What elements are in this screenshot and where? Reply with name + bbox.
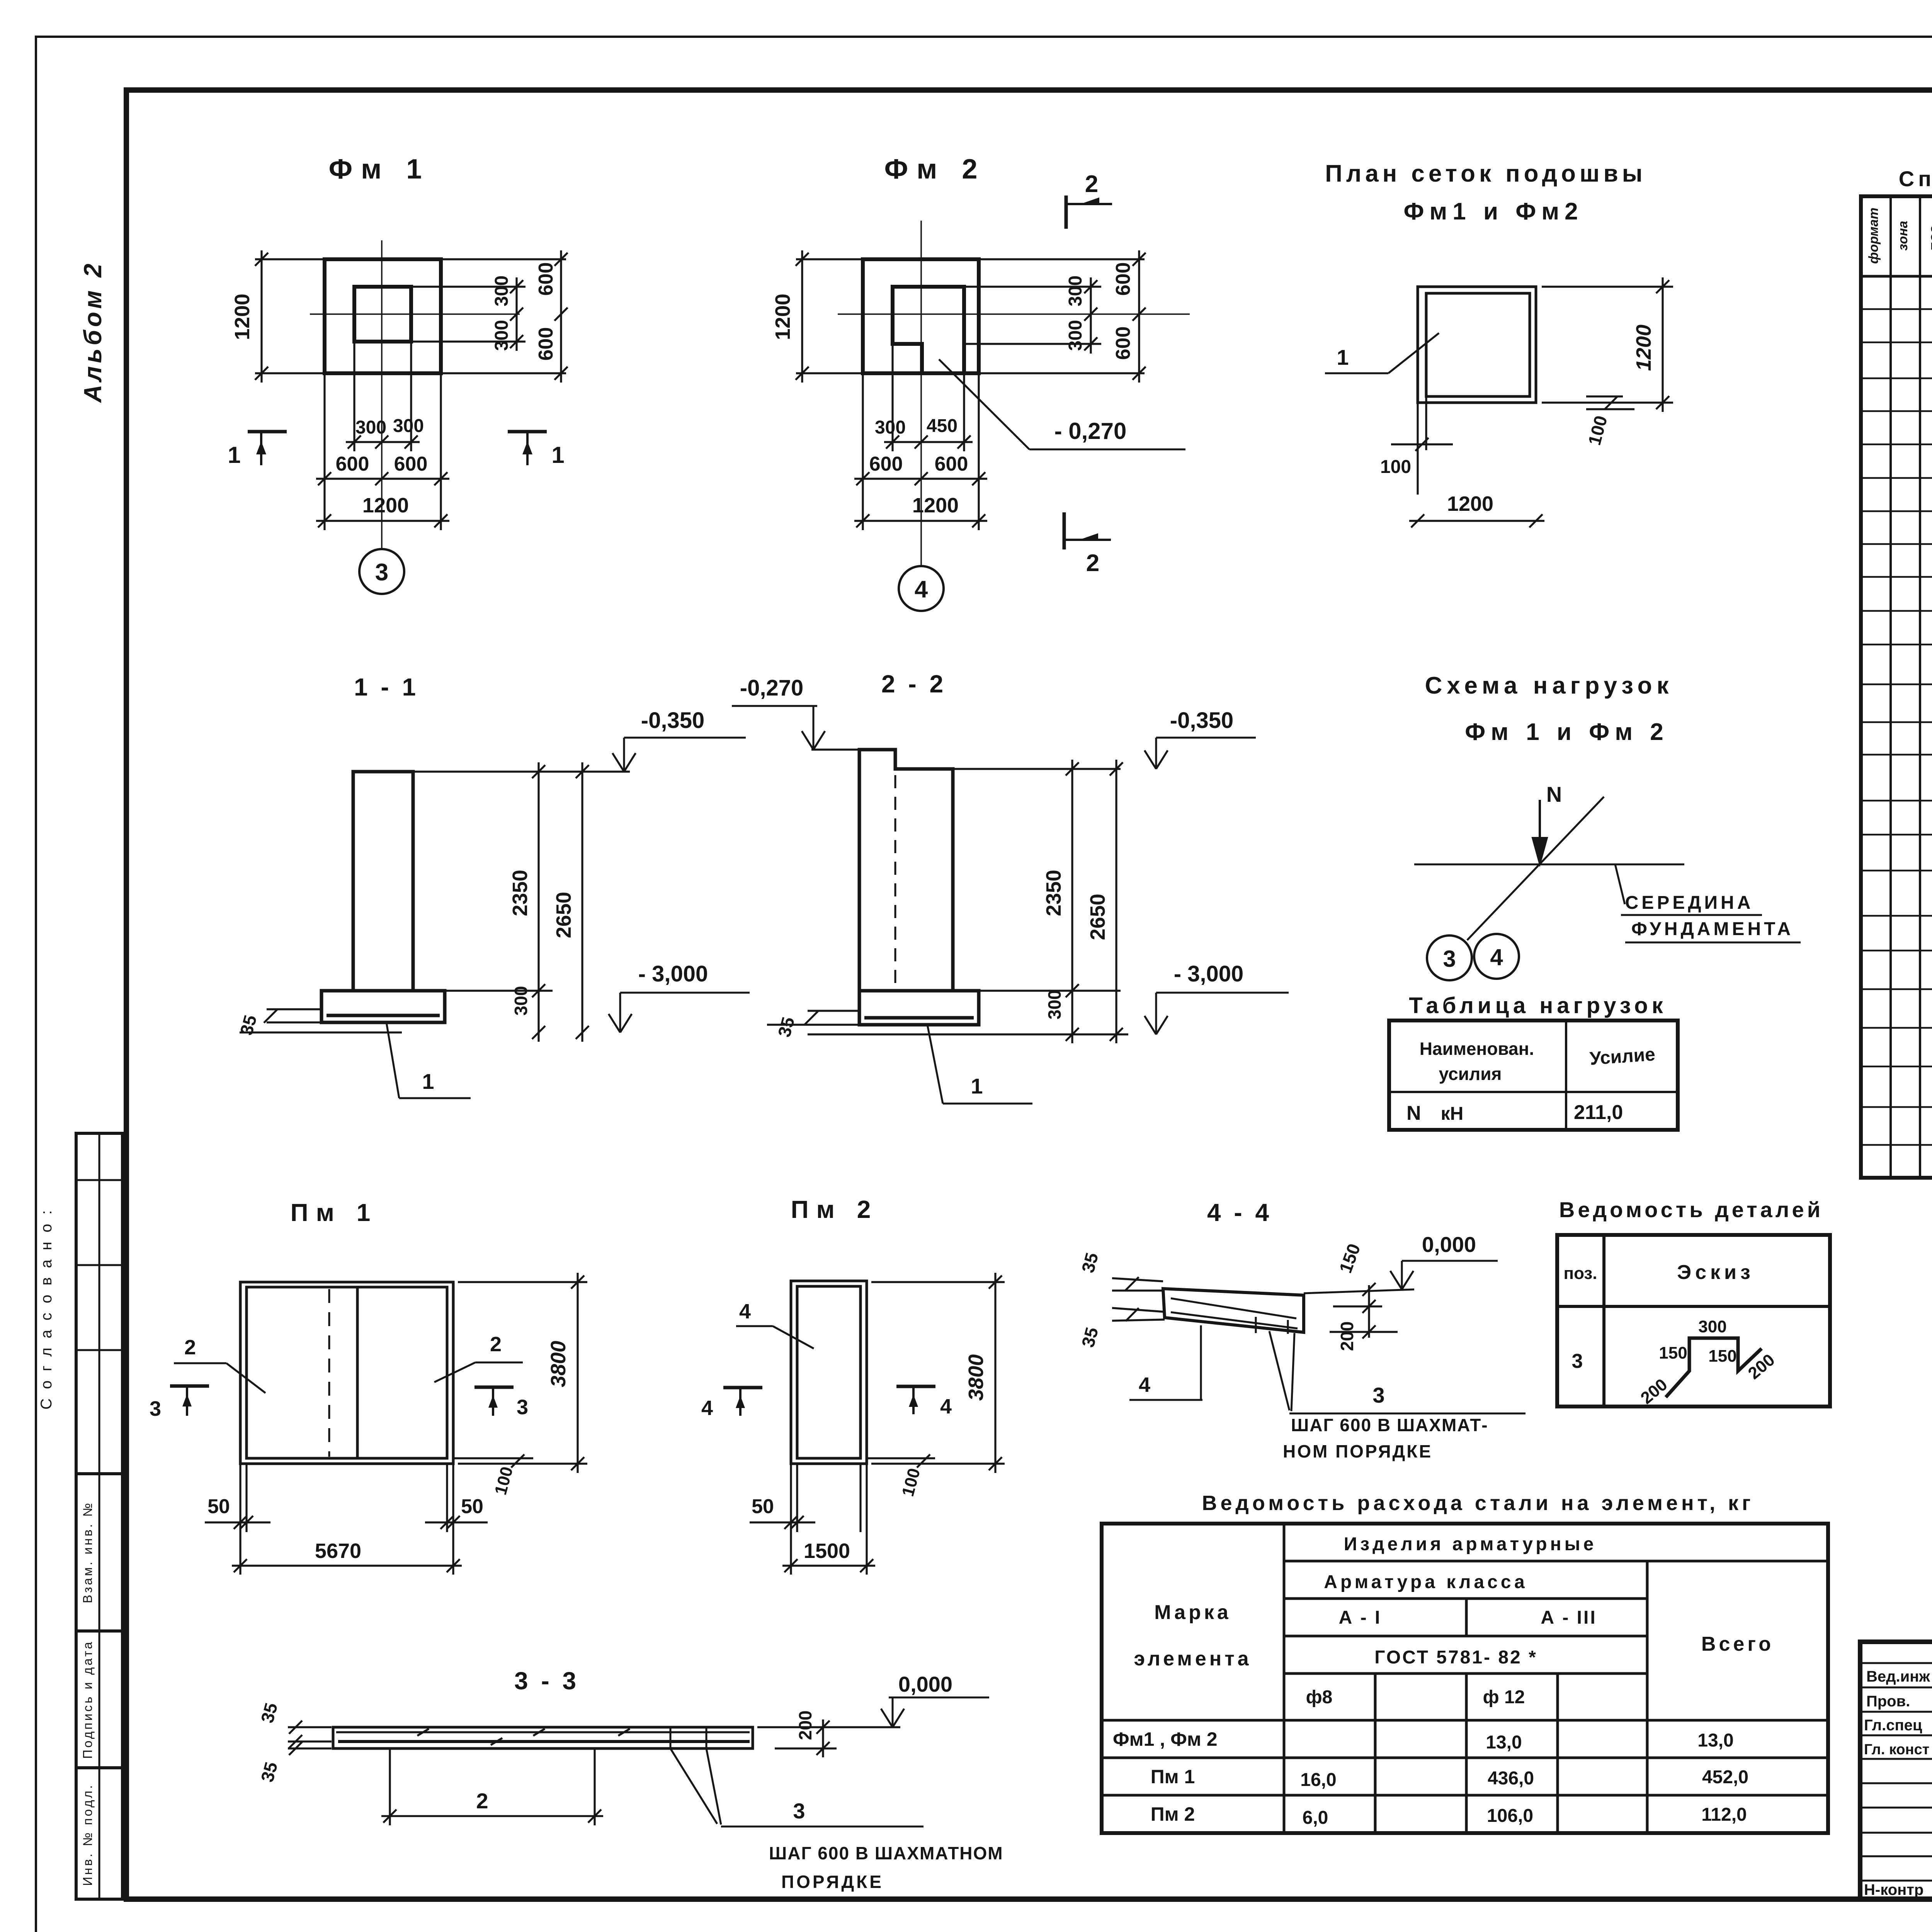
svg-text:600: 600: [394, 453, 428, 475]
svg-text:1500: 1500: [804, 1539, 850, 1563]
svg-text:Всего: Всего: [1701, 1633, 1774, 1655]
svg-text:1200: 1200: [1632, 325, 1655, 371]
svg-text:300: 300: [1065, 276, 1086, 306]
svg-text:3: 3: [1572, 1350, 1583, 1372]
svg-text:-0,350: -0,350: [641, 708, 704, 733]
svg-text:300: 300: [1065, 320, 1086, 351]
svg-text:2650: 2650: [1086, 894, 1109, 940]
svg-text:13,0: 13,0: [1486, 1732, 1522, 1753]
svg-text:3: 3: [375, 559, 388, 586]
3-3 mesh joints: [670, 1727, 672, 1748]
title block signature rows: [1860, 1662, 1932, 1664]
4-4 top reference line extension: [1304, 1289, 1414, 1293]
svg-text:300: 300: [355, 417, 386, 438]
svg-text:1 - 1: 1 - 1: [354, 673, 419, 701]
svg-text:Арматура класса: Арматура класса: [1324, 1572, 1528, 1592]
svg-text:5670: 5670: [315, 1539, 361, 1563]
2-2 dim 2650: [1115, 760, 1117, 1043]
svg-text:1: 1: [422, 1069, 434, 1094]
3-3 slab inner top line: [336, 1731, 750, 1733]
svg-text:Подпись и дата: Подпись и дата: [80, 1640, 95, 1759]
svg-text:150: 150: [1708, 1347, 1736, 1366]
4-4 left dims 35/35: [1112, 1278, 1163, 1281]
box Инв. № подл.: [76, 1768, 122, 1899]
Фм2 bottom dim 600/600: [854, 478, 987, 480]
4-4 slab mesh lines: [1171, 1298, 1296, 1318]
svg-text:Пм 1: Пм 1: [1151, 1766, 1195, 1787]
svg-text:3: 3: [150, 1397, 161, 1420]
Фм1 inner square (column): [354, 287, 411, 342]
svg-text:зона: зона: [1896, 221, 1910, 250]
svg-text:2350: 2350: [509, 870, 532, 916]
load table header divider: [1389, 1091, 1678, 1093]
svg-text:Схема нагрузок: Схема нагрузок: [1425, 672, 1673, 699]
svg-text:2: 2: [490, 1333, 502, 1356]
svg-text:4 - 4: 4 - 4: [1207, 1199, 1272, 1226]
svg-text:13,0: 13,0: [1697, 1730, 1733, 1751]
details table header divider: [1557, 1305, 1830, 1308]
Пм1 dim 50 left: [205, 1521, 270, 1523]
svg-text:3: 3: [1372, 1383, 1384, 1407]
section mark 2 below Фм2: [1063, 512, 1066, 549]
svg-text:1200: 1200: [231, 294, 254, 340]
section mark 3 left of Пм1: [170, 1384, 209, 1388]
Фм2 horizontal centerline: [838, 313, 1190, 315]
Фм1 outer square 1200x1200: [325, 259, 441, 373]
svg-text:3800: 3800: [964, 1354, 988, 1401]
Пм1 dim 50 right: [425, 1521, 488, 1523]
diagonal axis line: [1467, 797, 1604, 940]
details table frame: [1557, 1235, 1830, 1406]
1-1 footing outline: [321, 991, 445, 1022]
svg-text:Фм 1 и Фм 2: Фм 1 и Фм 2: [1465, 719, 1669, 745]
Фм2 left dim 1200: [796, 258, 863, 260]
svg-text:4: 4: [1139, 1373, 1150, 1396]
load table frame: [1389, 1020, 1678, 1130]
svg-text:600: 600: [935, 453, 968, 475]
leader СЕРЕДИНА ФУНДАМЕНТА: [1615, 864, 1625, 904]
svg-text:4: 4: [940, 1395, 952, 1418]
svg-text:1: 1: [1337, 345, 1349, 369]
svg-text:Инв. № подл.: Инв. № подл.: [80, 1783, 95, 1886]
3-3 leaders to item 3: [670, 1748, 717, 1824]
Пм1 outer rect: [240, 1282, 453, 1464]
2-2 footing outline: [859, 991, 979, 1025]
2-2 mesh bar in footing: [864, 1016, 974, 1020]
svg-text:Фм 1: Фм 1: [329, 154, 430, 185]
svg-text:Гл.спец: Гл.спец: [1864, 1717, 1922, 1734]
Фм2 bottom extension lines: [891, 344, 893, 451]
svg-text:Согласовано:: Согласовано:: [38, 1201, 55, 1410]
svg-text:Пров.: Пров.: [1866, 1693, 1910, 1710]
svg-text:1200: 1200: [1447, 492, 1493, 515]
steel table outer frame: [1102, 1524, 1828, 1833]
box Подпись и дата: [76, 1631, 122, 1768]
svg-text:2350: 2350: [1042, 870, 1065, 916]
mesh plan right dim 1200: [1542, 286, 1673, 287]
Фм1 bottom dim 600/600: [316, 478, 449, 480]
2-2 leader to mesh item 1: [927, 1025, 943, 1104]
svg-text:1: 1: [228, 442, 240, 468]
svg-text:200: 200: [795, 1711, 815, 1740]
svg-text:Пм 2: Пм 2: [791, 1196, 879, 1223]
4-4 slab tilted outline: [1163, 1289, 1304, 1332]
1-1 mesh bar in footing: [327, 1014, 440, 1017]
svg-text:300: 300: [492, 320, 512, 351]
svg-text:формат: формат: [1866, 207, 1881, 264]
Пм2 dim 1500: [782, 1565, 875, 1566]
svg-text:211,0: 211,0: [1574, 1101, 1623, 1124]
svg-text:1200: 1200: [771, 294, 794, 340]
svg-text:200: 200: [1337, 1321, 1357, 1351]
spec table row lines: [1861, 308, 1932, 310]
Пм1 dim 100 right: [453, 1457, 533, 1459]
svg-text:Пм 1: Пм 1: [291, 1199, 378, 1226]
svg-text:0,000: 0,000: [898, 1672, 952, 1696]
section mark 2 above Фм2: [1065, 196, 1068, 229]
svg-text:3: 3: [517, 1396, 528, 1419]
Пм2 bottom extension lines: [790, 1464, 792, 1575]
svg-text:6,0: 6,0: [1303, 1808, 1328, 1828]
Фм1 bottom dim 1200: [316, 520, 449, 522]
svg-text:Наименован.: Наименован.: [1420, 1039, 1534, 1059]
2-2 dashed centerline in column: [895, 753, 896, 989]
svg-text:600: 600: [1112, 262, 1134, 296]
svg-text:300: 300: [1044, 990, 1065, 1020]
svg-text:- 3,000: - 3,000: [1174, 961, 1244, 986]
Фм1 left dim 1200: [255, 258, 325, 260]
svg-text:150: 150: [1659, 1344, 1687, 1362]
svg-text:Вед.инж: Вед.инж: [1866, 1668, 1930, 1685]
Фм1 horizontal centerline: [310, 313, 520, 315]
svg-text:300: 300: [875, 417, 906, 438]
4-4 leaders to item 3: [1269, 1331, 1289, 1410]
svg-text:1: 1: [971, 1074, 983, 1098]
mesh plan bottom dim 1200: [1409, 520, 1544, 522]
svg-text:4: 4: [915, 576, 928, 603]
svg-text:2: 2: [1086, 550, 1099, 577]
svg-text:ПОРЯДКЕ: ПОРЯДКЕ: [781, 1872, 884, 1892]
svg-text:Ведомость расхода стали на эле: Ведомость расхода стали на элемент, кг: [1202, 1492, 1754, 1515]
Фм1 right dim chain 300/300: [515, 277, 517, 351]
Пм2 dim 100 right: [867, 1457, 935, 1459]
1-1 dim 2650: [581, 762, 583, 1042]
3-3 left dims 35/35: [288, 1726, 332, 1728]
Фм2 stepped inner column outline: [893, 287, 964, 373]
section mark 3 right of Пм1: [474, 1386, 514, 1389]
svg-text:3 - 3: 3 - 3: [514, 1667, 579, 1695]
1-1 left dim 35: [267, 1021, 321, 1023]
svg-text:ГОСТ 5781- 82 *: ГОСТ 5781- 82 *: [1374, 1647, 1537, 1668]
mesh plan right dim 100: [1586, 395, 1623, 397]
svg-text:600: 600: [1112, 327, 1134, 360]
svg-text:3800: 3800: [547, 1341, 570, 1387]
Пм1 dashed mesh boundary: [328, 1289, 330, 1457]
foundation line: [1414, 864, 1684, 866]
svg-text:А - III: А - III: [1541, 1607, 1597, 1628]
Пм1 solid mesh boundary: [356, 1287, 359, 1458]
svg-text:Спецификация на элемент констр: Спецификация на элемент конструкции: [1899, 167, 1932, 191]
svg-text:СЕРЕДИНА: СЕРЕДИНА: [1625, 893, 1754, 913]
Пм2 inner rect: [797, 1286, 861, 1458]
svg-text:50: 50: [207, 1495, 230, 1518]
Фм1 right dim chain 600/600: [560, 250, 562, 383]
svg-text:усилия: усилия: [1439, 1064, 1502, 1084]
steel table verticals: [1283, 1524, 1286, 1833]
svg-text:300: 300: [1698, 1317, 1726, 1336]
detail 3 bent bar sketch: [1666, 1338, 1762, 1397]
svg-text:Марка: Марка: [1154, 1601, 1231, 1624]
Фм2 bottom dim 1200: [854, 520, 987, 522]
svg-text:600: 600: [336, 453, 369, 475]
svg-text:N: N: [1406, 1102, 1421, 1124]
mesh plan leader 1: [1388, 333, 1439, 373]
spec table outer frame: [1861, 196, 1932, 1178]
svg-text:4: 4: [739, 1300, 751, 1323]
2-2 dim chain 2350/300: [953, 768, 1121, 770]
details table column divider: [1602, 1235, 1605, 1406]
svg-text:Пм 2: Пм 2: [1151, 1803, 1195, 1825]
svg-text:452,0: 452,0: [1702, 1767, 1748, 1787]
axis bubble 4 on schema: [1474, 934, 1519, 979]
svg-text:1200: 1200: [362, 494, 409, 517]
axis bubble 4 under Фм2: [899, 566, 944, 611]
svg-text:-0,270: -0,270: [740, 675, 803, 701]
Пм2 right dim 3800: [871, 1281, 1005, 1283]
svg-text:3: 3: [1443, 946, 1456, 972]
Фм2 vertical centerline: [920, 221, 922, 565]
Фм1 right extension lines: [441, 258, 566, 260]
Пм2 dim 50 left: [750, 1521, 815, 1523]
svg-text:2: 2: [476, 1789, 488, 1813]
Пм1 right dim 3800: [458, 1281, 587, 1283]
1-1 leader to mesh item 1: [386, 1022, 399, 1098]
spec table header bottom: [1861, 275, 1932, 278]
svg-text:3: 3: [793, 1799, 805, 1823]
svg-text:2: 2: [184, 1336, 196, 1359]
3-3 slab outline: [333, 1727, 753, 1748]
svg-text:16,0: 16,0: [1300, 1770, 1336, 1790]
svg-text:600: 600: [535, 327, 557, 361]
svg-text:Изделия арматурные: Изделия арматурные: [1344, 1534, 1597, 1554]
Фм1 vertical centerline: [381, 240, 383, 548]
svg-text:кН: кН: [1441, 1104, 1464, 1124]
section mark 4 right of Пм2: [896, 1385, 935, 1388]
svg-text:Н-контр: Н-контр: [1864, 1881, 1923, 1898]
2-2 left dim 35: [767, 1024, 858, 1026]
svg-text:600: 600: [535, 262, 557, 296]
svg-text:2: 2: [1085, 171, 1098, 197]
Согласовано grid box: [76, 1133, 122, 1474]
axis bubble 3 under Фм1: [359, 549, 404, 594]
3-3 mesh bar in slab: [338, 1740, 750, 1743]
svg-text:А - I: А - I: [1339, 1607, 1382, 1628]
Фм2 right dim chain 600/600: [1138, 250, 1140, 383]
svg-text:300: 300: [492, 276, 512, 306]
svg-text:Эскиз: Эскиз: [1677, 1261, 1754, 1284]
svg-text:НОМ ПОРЯДКЕ: НОМ ПОРЯДКЕ: [1283, 1441, 1432, 1461]
svg-text:N: N: [1546, 782, 1562, 806]
svg-text:- 3,000: - 3,000: [638, 961, 708, 986]
svg-text:50: 50: [461, 1495, 483, 1518]
Фм2 right extension lines: [979, 258, 1145, 260]
load table column divider: [1565, 1020, 1567, 1130]
Фм2 right dim chain 300/300: [1090, 277, 1092, 354]
svg-text:Фм1 , Фм 2: Фм1 , Фм 2: [1113, 1728, 1218, 1750]
svg-text:ф 12: ф 12: [1483, 1687, 1525, 1708]
svg-text:ШАГ 600 В ШАХМАТНОМ: ШАГ 600 В ШАХМАТНОМ: [769, 1843, 1003, 1863]
svg-text:106,0: 106,0: [1487, 1806, 1533, 1826]
svg-text:2 - 2: 2 - 2: [881, 670, 946, 698]
svg-text:Ведомость деталей: Ведомость деталей: [1559, 1197, 1823, 1222]
svg-text:450: 450: [927, 416, 957, 436]
Фм2 outer square 1200x1200: [863, 259, 979, 373]
4-4 right dim 150: [1368, 1285, 1370, 1338]
svg-text:ФУНДАМЕНТА: ФУНДАМЕНТА: [1631, 919, 1794, 939]
svg-text:1200: 1200: [912, 494, 959, 517]
3-3 bottom dim 2: [389, 1748, 391, 1825]
svg-text:элемента: элемента: [1134, 1648, 1252, 1670]
svg-text:300: 300: [511, 986, 531, 1016]
2-2 column outline with step: [859, 750, 953, 991]
mesh plan inner square: [1426, 293, 1530, 396]
Фм2 bottom dim 300/450: [884, 441, 973, 443]
svg-text:Таблица нагрузок: Таблица нагрузок: [1409, 993, 1667, 1018]
Фм1 bottom dim 300/300: [346, 441, 420, 443]
Пм2 outer rect: [791, 1281, 867, 1464]
box Взам. инв. №: [76, 1474, 122, 1631]
Пм1 dim 5670: [232, 1565, 462, 1566]
Пм1 inner rect: [247, 1287, 447, 1458]
svg-text:2650: 2650: [552, 892, 575, 938]
mesh plan outer square: [1418, 287, 1536, 403]
svg-text:- 0,270: - 0,270: [1054, 418, 1127, 444]
svg-text:112,0: 112,0: [1701, 1804, 1747, 1825]
section mark 1-1 left of Фм1: [248, 430, 287, 434]
axis bubble 3 on schema: [1427, 935, 1472, 980]
svg-text:0,000: 0,000: [1422, 1232, 1476, 1257]
svg-text:поз.: поз.: [1926, 222, 1932, 251]
spec table verticals: [1889, 196, 1892, 1178]
3-3 right dim 200: [775, 1747, 837, 1749]
svg-text:4: 4: [701, 1396, 713, 1420]
svg-text:Гл. конст: Гл. конст: [1864, 1742, 1929, 1758]
svg-text:100: 100: [1380, 457, 1411, 477]
elevation leader -0,270 on Фм2: [939, 359, 1029, 449]
section mark 1-1 right of Фм1: [508, 430, 547, 434]
svg-text:436,0: 436,0: [1488, 1768, 1534, 1789]
svg-text:поз.: поз.: [1564, 1264, 1597, 1283]
svg-text:Альбом 2: Альбом 2: [79, 260, 107, 403]
svg-text:Фм1 и Фм2: Фм1 и Фм2: [1403, 198, 1583, 225]
svg-text:План сеток подошвы: План сеток подошвы: [1325, 160, 1646, 187]
svg-text:4: 4: [1490, 944, 1503, 970]
steel table horizontals: [1284, 1560, 1828, 1563]
svg-text:300: 300: [393, 416, 424, 436]
mesh plan left-bottom dim 100: [1417, 403, 1418, 495]
Пм1 bottom extension lines: [239, 1464, 241, 1575]
4-4 leader to mark 4: [1200, 1325, 1202, 1400]
svg-text:Фм 2: Фм 2: [884, 154, 986, 185]
svg-text:ф8: ф8: [1306, 1687, 1333, 1708]
section mark 4 left of Пм2: [723, 1386, 762, 1389]
svg-text:Взам. инв. №: Взам. инв. №: [80, 1501, 95, 1603]
1-1 dim chain 2350/300: [413, 770, 630, 772]
1-1 column outline: [353, 772, 413, 991]
svg-text:600: 600: [869, 453, 903, 475]
title block outer frame: [1860, 1642, 1932, 1899]
Фм1 bottom extension lines: [353, 342, 355, 451]
3-3 hatch ticks: [417, 1729, 429, 1736]
svg-text:50: 50: [752, 1495, 774, 1518]
svg-text:-0,350: -0,350: [1170, 708, 1233, 733]
svg-text:ШАГ 600 В ШАХМАТ-: ШАГ 600 В ШАХМАТ-: [1291, 1415, 1488, 1435]
svg-text:1: 1: [551, 442, 564, 468]
